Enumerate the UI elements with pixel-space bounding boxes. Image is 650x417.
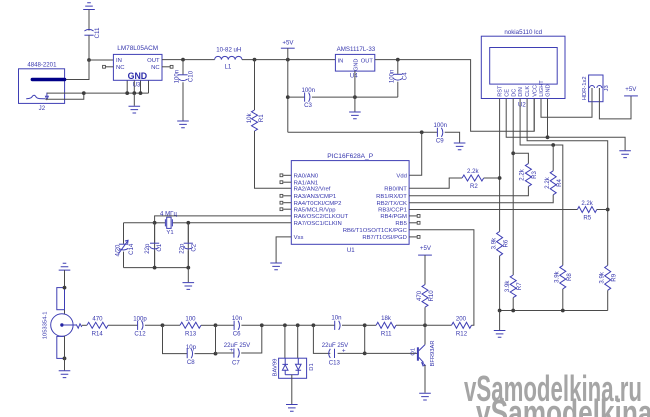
node C7 top (260, 323, 264, 327)
lcd U2 pin GND (546, 84, 552, 96)
ground C10 (177, 121, 189, 128)
node input filter B (214, 323, 218, 355)
power +5V (top) (281, 40, 295, 60)
svg-text:C13: C13 (329, 359, 341, 366)
svg-text:AMS1117L-33: AMS1117L-33 (337, 46, 376, 53)
svg-text:+5V: +5V (420, 245, 432, 252)
wire LIGHT to J3 (541, 99, 592, 118)
svg-text:R9: R9 (611, 273, 618, 281)
svg-text:100: 100 (185, 316, 196, 323)
svg-text:18k: 18k (381, 315, 392, 322)
resistor R12 (425, 315, 472, 337)
wire D1 to ground (291, 375, 293, 404)
regulator U3 GND label (128, 71, 148, 81)
svg-text:22p: 22p (144, 243, 151, 254)
watermark bottom cut (476, 392, 650, 417)
svg-text:U1: U1 (347, 247, 355, 254)
svg-text:10k: 10k (246, 112, 253, 123)
svg-text:10-82 uH: 10-82 uH (216, 47, 241, 54)
svg-text:22p: 22p (178, 243, 185, 254)
svg-text:DC: DC (511, 89, 517, 97)
mcu U1 pin RA4/T0CKI/CMP2 (280, 201, 341, 207)
svg-text:3.9k: 3.9k (504, 280, 511, 292)
wire U4 OUT 3.3V line (375, 60, 534, 132)
svg-text:RB0/INT: RB0/INT (384, 186, 407, 192)
regulator U3 pin OUT (147, 58, 160, 64)
svg-text:CLK: CLK (525, 86, 531, 97)
header J3 refdes (604, 85, 610, 91)
regulator U3 pin NC right (151, 65, 160, 71)
svg-text:470: 470 (92, 316, 103, 323)
lcd U2 pin DC (511, 89, 517, 97)
svg-text:100n: 100n (388, 70, 395, 84)
node CLK-R5 (606, 208, 610, 212)
node DC-R3 (511, 151, 515, 155)
wire J2 pin1 to input node (65, 60, 89, 80)
crystal Y1 (155, 210, 189, 235)
svg-text:DIN: DIN (518, 87, 524, 97)
svg-text:R7: R7 (516, 282, 523, 290)
ground (inverted) above C11 (83, 3, 95, 10)
ground lcd (619, 151, 631, 158)
connector J2 label (27, 61, 57, 68)
resistor R1 (246, 60, 291, 189)
svg-text:100p: 100p (133, 316, 147, 323)
connector J2 sleeve contact (26, 95, 45, 99)
svg-text:NC: NC (151, 65, 160, 71)
svg-text:Vss: Vss (294, 235, 304, 241)
wire clamp drops (285, 325, 298, 358)
mcu U1 PIC16F628A box (291, 161, 409, 245)
lcd U2 name label (504, 29, 542, 36)
no-connect U3 NC right (162, 65, 173, 68)
capacitor C8 (163, 325, 216, 366)
svg-text:4848-2201: 4848-2201 (27, 61, 57, 68)
resistor R6 (490, 232, 509, 311)
regulator U3 pin NC left (116, 65, 125, 71)
svg-text:2.2k: 2.2k (467, 168, 479, 175)
svg-text:GND: GND (354, 59, 360, 71)
mcu U1 pin RA6/OSC2/CLKOUT (294, 214, 349, 220)
svg-text:470: 470 (416, 290, 423, 301)
svg-text:IN: IN (116, 58, 122, 64)
lcd U2 pin RST (498, 85, 504, 97)
header J3 pins (590, 86, 602, 102)
svg-text:C6: C6 (233, 330, 241, 337)
ground Q1 (419, 393, 431, 400)
svg-text:R8: R8 (566, 273, 573, 281)
wire base (365, 352, 418, 354)
wire +5V rail to C9 (288, 131, 438, 133)
svg-text:C12: C12 (134, 331, 146, 338)
svg-text:R12: R12 (456, 330, 468, 337)
regulator U3 pin IN (116, 58, 122, 64)
capacitor C7 (216, 325, 262, 366)
connector J1 shield pin bottom (57, 336, 67, 360)
mcu U1 pin RA3/AN3/CMP1 (280, 194, 336, 200)
wire DC line (512, 99, 514, 276)
svg-text:D1: D1 (309, 363, 315, 370)
wire crystal ground bus (124, 266, 191, 283)
svg-text:100n: 100n (302, 87, 316, 94)
mcu U1 pin RB0/INT (384, 186, 407, 192)
svg-text:10n: 10n (232, 315, 242, 322)
svg-text:3.9k: 3.9k (554, 270, 561, 282)
mcu U1 pin RA0/AN0 (280, 174, 319, 180)
svg-text:Y1: Y1 (166, 230, 173, 236)
capacitor C13 (313, 325, 364, 366)
svg-text:HDR-1x2: HDR-1x2 (582, 76, 588, 100)
svg-text:4/20: 4/20 (114, 244, 121, 256)
ground C9 (454, 143, 466, 150)
regulator U3 LM78L05ACM box (113, 54, 162, 80)
regulator U3 refdes (133, 82, 141, 89)
svg-text:CE: CE (504, 89, 510, 97)
svg-text:C4: C4 (402, 72, 409, 80)
inductor L1 (215, 47, 242, 71)
node +5V rail tap (286, 58, 290, 62)
node RST-R2 (498, 176, 502, 180)
power +5V (R10) (418, 245, 432, 285)
header J3 name (582, 76, 588, 100)
svg-text:R3: R3 (531, 170, 538, 178)
mcu U1 pin Vss (294, 235, 304, 241)
ground U3 (129, 106, 141, 113)
wire CE to gnd net (506, 99, 547, 138)
wire lcd gnd to ground (548, 137, 626, 150)
regulator U3 name label (117, 45, 158, 52)
svg-text:22uF 25V: 22uF 25V (224, 342, 251, 349)
mcu U1 pin RB2/TX/CK (376, 201, 407, 207)
svg-text:C9: C9 (436, 138, 444, 145)
svg-text:U4: U4 (350, 72, 358, 79)
svg-text:+5V: +5V (282, 40, 294, 47)
svg-text:2.2k: 2.2k (544, 176, 551, 188)
mcu U1 pin RB3/CCP1 (378, 207, 407, 213)
resistor R5 (409, 200, 608, 221)
svg-text:+: + (229, 347, 233, 354)
mcu U1 pin RA7/OSC1/CLKIN (294, 221, 342, 227)
capacitor C11 (84, 27, 101, 38)
resistor R2 (409, 168, 500, 190)
svg-text:RB6/T1OSO/T1CK/PGC: RB6/T1OSO/T1CK/PGC (343, 228, 408, 234)
lcd U2 pin CLK (525, 86, 531, 97)
ground U4 (349, 112, 361, 119)
svg-text:C14: C14 (128, 243, 135, 255)
wire C11 ground stub (88, 10, 90, 31)
svg-text:PIC16F628A_P: PIC16F628A_P (327, 153, 373, 160)
resistor R7 (504, 275, 523, 311)
node U4 ground tap (353, 95, 357, 99)
capacitor C10 (174, 60, 195, 121)
svg-text:C1: C1 (156, 243, 163, 251)
svg-text:BFR93AR: BFR93AR (430, 340, 436, 366)
svg-text:2.2k: 2.2k (519, 168, 526, 180)
wire VCC line (533, 99, 535, 132)
mcu U1 pin Vdd (396, 174, 406, 180)
mcu U1 pin RB5 (395, 221, 420, 227)
ground BNC (59, 371, 71, 378)
resistor R3 (409, 153, 538, 196)
node base tap top (363, 323, 367, 327)
node crystal right (186, 221, 190, 225)
lcd U2 pin VCC (532, 85, 538, 97)
resistor R14 (82, 316, 138, 338)
junction shield merge (82, 91, 86, 95)
svg-text:Vdd: Vdd (396, 174, 406, 180)
svg-text:vSamodelkina.ru: vSamodelkina.ru (476, 392, 650, 417)
wire pulldown ground bus (498, 309, 608, 331)
wire L1 to U4 IN (242, 59, 335, 61)
svg-text:RST: RST (498, 85, 504, 97)
node R1 tap (253, 58, 257, 62)
connector J2 box (19, 69, 65, 104)
wire ground bus to U3 GND pins (84, 80, 149, 95)
capacitor C12 (133, 316, 162, 338)
svg-text:U3: U3 (133, 82, 141, 89)
svg-text:C7: C7 (232, 359, 240, 366)
resistor R9 (599, 265, 618, 310)
node input filter A (161, 323, 165, 327)
wire collector (424, 325, 426, 344)
regulator U4 name label (337, 46, 376, 53)
svg-text:RA2/AN2/Vref: RA2/AN2/Vref (294, 186, 331, 192)
lcd U2 screen (490, 48, 558, 85)
regulator U4 pin GND (354, 59, 360, 71)
svg-text:Q1: Q1 (410, 348, 416, 356)
svg-text:RA3/AN3/CMP1: RA3/AN3/CMP1 (294, 194, 337, 200)
wire U3 ground drop (133, 93, 135, 106)
node crystal left (153, 221, 157, 225)
ground (inverted) above BNC (59, 263, 71, 270)
svg-text:nokia5110 lcd: nokia5110 lcd (504, 29, 542, 36)
connector J2 refdes (39, 105, 46, 112)
wire GND pin (547, 99, 549, 138)
lcd U2 pin LIGHT (539, 80, 545, 97)
node base tap bottom (363, 352, 367, 356)
connector J1 BNC 1053354-1 (42, 312, 81, 340)
wire RA6 to crystal node (155, 216, 292, 268)
mcu U1 pin RA2/AN2/Vref (294, 186, 331, 192)
capacitor 10n coupling (331, 314, 364, 330)
capacitor C1 (144, 223, 163, 268)
svg-text:RB2/TX/CK: RB2/TX/CK (376, 201, 407, 207)
wire emitter to ground (424, 365, 426, 393)
lcd U2 refdes (518, 101, 526, 108)
lcd U2 pin DIN (518, 87, 524, 97)
svg-text:R4: R4 (556, 178, 563, 186)
lcd U2 pin CE (504, 89, 510, 97)
svg-text:C3: C3 (304, 102, 312, 109)
wire BNC shield bottom (64, 336, 66, 371)
svg-text:RB3/CCP1: RB3/CCP1 (378, 207, 407, 213)
svg-text:GND: GND (546, 84, 552, 96)
svg-text:OUT: OUT (361, 58, 374, 64)
wire input node to regulator IN (89, 59, 113, 61)
mcu U1 pin RB7/T1OSI/PGD (362, 235, 420, 241)
regulator U4 pin OUT (361, 58, 374, 64)
svg-text:R13: R13 (185, 330, 197, 337)
svg-text:R5: R5 (583, 214, 591, 221)
svg-text:1053354-1: 1053354-1 (42, 312, 48, 340)
wire clamp taps (262, 323, 335, 327)
svg-text:R10: R10 (428, 290, 435, 302)
wire U3 OUT to L1 (162, 59, 215, 61)
svg-text:OUT: OUT (147, 58, 160, 64)
svg-text:LIGHT: LIGHT (539, 80, 545, 97)
svg-text:R2: R2 (470, 183, 478, 190)
node DIN-R4 (551, 143, 555, 147)
no-connect U3 NC left (103, 65, 114, 68)
svg-text:R6: R6 (503, 239, 510, 247)
svg-text:C8: C8 (187, 359, 195, 366)
svg-text:C10: C10 (187, 70, 194, 82)
svg-text:R1: R1 (258, 114, 265, 122)
svg-text:NC: NC (116, 65, 125, 71)
capacitor C14 (trimmer 4/20) (114, 223, 154, 268)
wire BNC shield top (64, 270, 66, 314)
mcu U1 refdes (347, 247, 355, 254)
mcu U1 pin RB4/PGM (380, 214, 420, 220)
connector J2 switch arrow (46, 93, 49, 100)
ground Vss (270, 263, 282, 270)
svg-text:U2: U2 (518, 101, 526, 108)
wire Vss to ground (276, 237, 291, 263)
mcu U1 pin RA5/MCLR/Vpp (280, 207, 336, 213)
svg-text:IN: IN (338, 58, 344, 64)
svg-text:3.9k: 3.9k (490, 237, 497, 249)
svg-text:2.2k: 2.2k (581, 200, 593, 207)
svg-text:RA0/AN0: RA0/AN0 (294, 174, 319, 180)
svg-text:LM78L05ACM: LM78L05ACM (117, 45, 158, 52)
wire DIN line (520, 99, 563, 266)
node CE-GND (546, 135, 550, 139)
svg-text:10p: 10p (186, 344, 197, 351)
wire RST line (499, 99, 501, 232)
svg-text:J2: J2 (39, 105, 46, 112)
svg-text:10n: 10n (331, 314, 341, 321)
svg-text:200: 200 (456, 315, 467, 322)
svg-text:C11: C11 (94, 27, 101, 38)
svg-text:RA4/T0CKI/CMP2: RA4/T0CKI/CMP2 (294, 201, 342, 207)
power +5V (right) (624, 86, 638, 96)
svg-text:VCC: VCC (532, 85, 538, 97)
svg-text:100n: 100n (174, 70, 181, 84)
transistor Q1 BFR93AR (410, 340, 436, 366)
wire U4 GND pin (354, 71, 356, 112)
svg-text:L1: L1 (225, 63, 232, 70)
wire J2 sleeve to ground bus (45, 93, 83, 99)
connector J2 center pin (32, 78, 64, 81)
resistor R4 (409, 145, 563, 203)
capacitor C9 (434, 122, 460, 145)
resistor R13 (163, 316, 216, 338)
capacitor C4 (388, 60, 408, 98)
svg-text:C2: C2 (191, 243, 198, 251)
svg-text:RA7/OSC1/CLKIN: RA7/OSC1/CLKIN (294, 221, 342, 227)
regulator U4 AMS1117L-33 box (335, 54, 374, 71)
svg-text:J3: J3 (604, 85, 610, 91)
wire RA7 to crystal node (188, 223, 291, 268)
regulator U4 pin IN (338, 58, 344, 64)
svg-text:RB1/RX/DT: RB1/RX/DT (376, 194, 407, 200)
watermark vSamodelkina.ru (464, 368, 642, 409)
svg-text:+5V: +5V (625, 86, 637, 93)
svg-text:RA5/MCLR/Vpp: RA5/MCLR/Vpp (294, 207, 337, 213)
regulator U4 refdes (350, 72, 358, 79)
capacitor C2 (178, 223, 197, 268)
diode D1 BAV99 (273, 358, 316, 378)
mcu U1 pin RA1/AN1 (280, 180, 318, 186)
wire J3 pin2 to +5V (599, 96, 631, 119)
lcd U2 nokia5110 box (481, 36, 565, 98)
ground D1 (286, 405, 298, 412)
wire +5V rail vertical (287, 60, 289, 133)
capacitor C6 (216, 315, 262, 338)
svg-text:R14: R14 (92, 330, 104, 337)
svg-text:100n: 100n (434, 122, 448, 129)
header J3 box (589, 75, 603, 102)
resistor R8 (554, 265, 573, 310)
node Vdd tap (420, 130, 424, 134)
mcu U1 pin RB6/T1OSO/T1CK/PGC (343, 228, 408, 234)
wire RB6 to R12 (409, 230, 474, 325)
svg-text:RA6/OSC2/CLKOUT: RA6/OSC2/CLKOUT (294, 214, 349, 220)
wire C11 to input node (88, 35, 90, 60)
mcu U1 name label (327, 153, 373, 160)
resistor R10 (416, 285, 435, 326)
node collector (423, 323, 427, 327)
mcu U1 pin RB1/RX/DT (376, 194, 407, 200)
connector J1 shield pin top (57, 286, 67, 310)
node C4 top (396, 58, 400, 62)
node C10 tap (181, 58, 185, 62)
svg-text:BAV99: BAV99 (273, 359, 279, 377)
wire Vdd drop (409, 132, 422, 175)
svg-text:4 МГц: 4 МГц (160, 210, 177, 217)
svg-text:R11: R11 (381, 330, 392, 337)
node C3 left (286, 95, 290, 99)
svg-text:RB4/PGM: RB4/PGM (380, 214, 407, 220)
svg-text:3.9k: 3.9k (599, 271, 606, 283)
svg-text:RB5: RB5 (395, 221, 407, 227)
ground pulldown bus (494, 331, 506, 338)
svg-text:RB7/T1OSI/PGD: RB7/T1OSI/PGD (362, 235, 407, 241)
wire CLK line (527, 99, 608, 266)
svg-text:GND: GND (128, 71, 148, 81)
node input junction (87, 58, 91, 62)
capacitor C3 (288, 87, 398, 109)
resistor R11 (365, 315, 425, 338)
ground crystal cluster (183, 283, 195, 290)
